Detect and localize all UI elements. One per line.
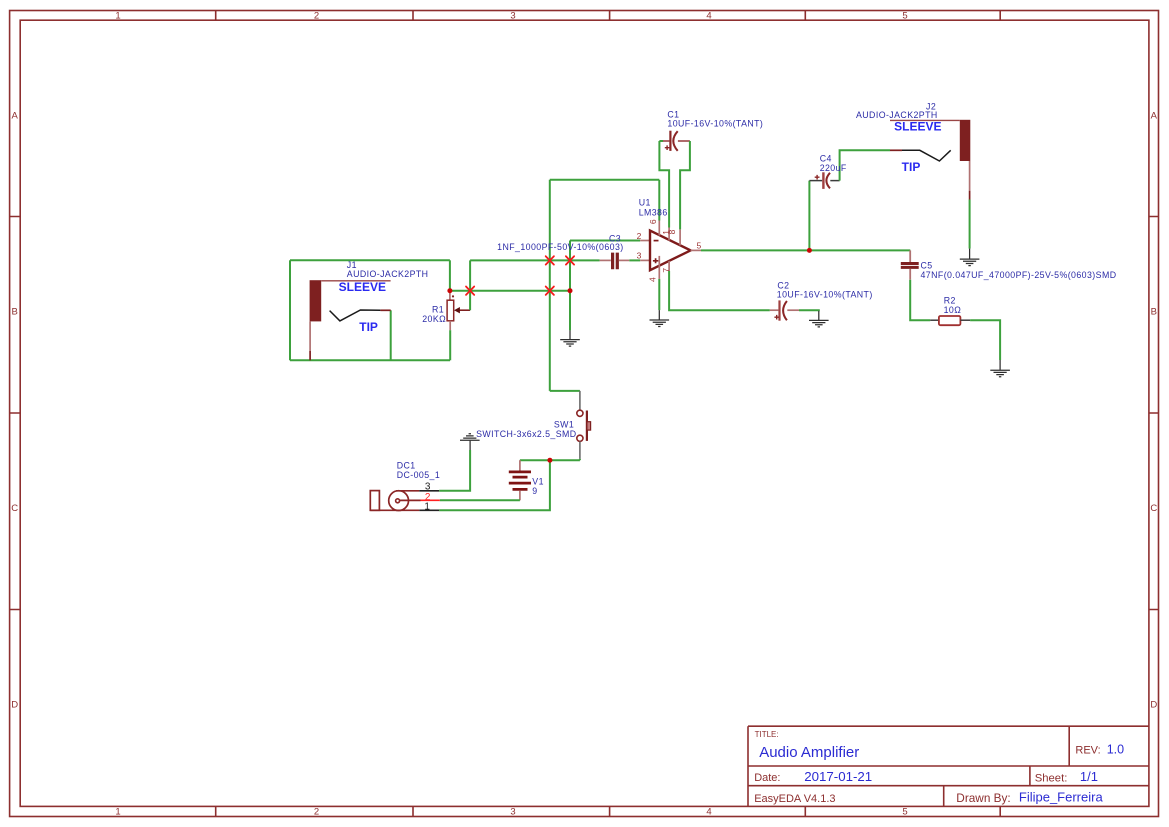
wire C4 branch vertical <box>808 181 810 251</box>
capacitor C2 curved plate <box>783 301 787 320</box>
capacitor C5 top pin <box>909 250 911 262</box>
capacitor C4 plus sign <box>815 175 820 180</box>
svg-text:C: C <box>1150 503 1157 514</box>
no-connect cross at rail crossing C3 wire <box>546 256 554 264</box>
no-connect cross at rail crossing input <box>546 287 554 295</box>
svg-text:SLEEVE: SLEEVE <box>894 120 941 134</box>
audio jack J1 body <box>310 280 322 321</box>
capacitor C3 plates <box>613 253 618 270</box>
wire minus-input to pin2 <box>570 240 640 242</box>
resistor R2 body <box>939 316 961 325</box>
potentiometer R1 body <box>447 300 454 321</box>
svg-text:3: 3 <box>510 807 515 818</box>
audio jack J1 sleeve line <box>321 280 390 282</box>
svg-text:2: 2 <box>314 11 319 22</box>
wire output net <box>701 249 910 251</box>
wire power rail vertical <box>549 180 551 391</box>
svg-text:DC1: DC1 <box>397 460 416 470</box>
junction dot output C4 branch <box>807 248 812 253</box>
svg-text:6: 6 <box>648 219 658 224</box>
junction dot R1 top <box>447 288 452 293</box>
svg-text:TIP: TIP <box>902 160 921 174</box>
svg-text:AUDIO-JACK2PTH: AUDIO-JACK2PTH <box>347 269 429 279</box>
switch SW1 top contact circle <box>577 410 583 416</box>
wire switch to bottom rail <box>579 459 581 460</box>
capacitor C4 straight plate <box>822 172 824 189</box>
svg-text:1NF_1000PF-50V-10%(0603): 1NF_1000PF-50V-10%(0603) <box>497 242 623 252</box>
svg-text:3: 3 <box>510 11 515 22</box>
svg-text:10Ω: 10Ω <box>944 305 962 315</box>
svg-text:D: D <box>1150 700 1157 711</box>
switch SW1 bottom pin <box>579 442 581 459</box>
svg-text:TITLE:: TITLE: <box>755 730 779 739</box>
frame column ticks bottom <box>216 806 1001 816</box>
capacitor C4 curved plate <box>826 173 830 189</box>
wire J1 tip to bottom <box>390 310 392 360</box>
resistor R2 left pin <box>930 319 939 321</box>
svg-text:1/1: 1/1 <box>1080 769 1098 784</box>
wire J1 loop bottom <box>290 359 450 361</box>
ground at J2 sleeve <box>960 249 980 266</box>
no-connect cross at wiper crossing <box>466 287 474 295</box>
dc jack DC1 pin3 <box>419 490 439 492</box>
svg-text:1: 1 <box>115 807 120 818</box>
capacitor C3 right pin <box>619 259 629 261</box>
svg-text:A: A <box>1151 111 1158 122</box>
wire J1 loop top <box>290 259 450 261</box>
audio jack J2 tip pin <box>890 149 902 151</box>
svg-text:SWITCH-3x6x2.5_SMD: SWITCH-3x6x2.5_SMD <box>476 429 576 439</box>
dc jack DC1 center line <box>400 499 421 501</box>
capacitor C1 plus sign <box>665 145 670 150</box>
svg-text:C3: C3 <box>609 233 621 243</box>
svg-text:2017-01-21: 2017-01-21 <box>804 769 872 784</box>
svg-text:5: 5 <box>902 11 907 22</box>
svg-text:C4: C4 <box>820 153 832 163</box>
svg-text:Audio Amplifier: Audio Amplifier <box>759 744 859 761</box>
wire battery top rail <box>520 459 580 461</box>
wire C4 to J2 tip <box>840 150 890 180</box>
op-amp U1 plus sign <box>653 258 658 263</box>
wire DC1 pin1 net <box>439 460 550 510</box>
battery V1 plates <box>509 472 531 490</box>
svg-text:20KΩ: 20KΩ <box>422 314 446 324</box>
audio jack J2 tip contact <box>902 150 951 161</box>
wire pin7 branch <box>669 271 770 310</box>
frame column ticks top <box>216 11 1001 21</box>
capacitor C5 plates <box>901 264 919 268</box>
op-amp U1 pin4 <box>658 256 660 279</box>
wire pin4 to ground <box>658 279 660 310</box>
svg-text:SW1: SW1 <box>554 419 574 429</box>
svg-text:C: C <box>11 503 18 514</box>
svg-text:Date:: Date: <box>754 772 780 784</box>
wire C3 to pin3 <box>629 259 640 261</box>
capacitor C2 plus sign <box>774 315 779 320</box>
svg-text:9: 9 <box>532 486 537 496</box>
svg-text:2: 2 <box>637 231 642 241</box>
svg-text:2: 2 <box>314 807 319 818</box>
svg-text:Filipe_Ferreira: Filipe_Ferreira <box>1019 790 1104 805</box>
audio jack J2 sleeve line <box>890 119 960 121</box>
svg-text:4: 4 <box>706 11 711 22</box>
battery V1 bottom pin <box>519 491 521 501</box>
op-amp U1 pin6 <box>658 180 660 221</box>
ground at C2 <box>809 311 829 327</box>
svg-text:1.0: 1.0 <box>1107 742 1124 756</box>
svg-text:SLEEVE: SLEEVE <box>339 280 386 294</box>
svg-text:1: 1 <box>115 11 120 22</box>
potentiometer R1 top pin <box>449 291 451 301</box>
wire wiper vertical <box>469 260 471 310</box>
dc jack DC1 pin1 <box>419 509 439 511</box>
switch SW1 actuator <box>586 411 588 441</box>
svg-text:Drawn By:: Drawn By: <box>956 791 1010 805</box>
op-amp U1 pin3 <box>640 259 650 261</box>
capacitor C2 right pin <box>787 309 799 311</box>
frame row ticks left <box>10 217 21 610</box>
svg-text:C5: C5 <box>921 260 933 270</box>
capacitor C1 right pin <box>678 140 690 142</box>
wire input node horizontal <box>450 290 570 292</box>
junction dot minus-input node <box>568 288 573 293</box>
capacitor C2 straight plate <box>778 300 780 320</box>
capacitor C1 straight plate <box>669 131 671 151</box>
switch SW1 top pin <box>579 391 581 410</box>
svg-text:REV:: REV: <box>1075 744 1100 756</box>
svg-text:4: 4 <box>706 807 711 818</box>
wire DC1 pin3 to ground <box>439 450 470 491</box>
wire power rail top <box>550 179 660 181</box>
wire C1 left branch <box>659 141 669 228</box>
capacitor C4 left pin <box>809 180 822 182</box>
svg-text:A: A <box>12 111 19 122</box>
wire C1 left stub <box>659 140 663 142</box>
op-amp U1 pin1 <box>668 228 670 241</box>
svg-text:220uF: 220uF <box>820 163 847 173</box>
dc jack DC1 pin2 <box>421 499 440 501</box>
svg-text:Sheet:: Sheet: <box>1035 772 1068 784</box>
op-amp U1 pin5 output <box>691 249 701 251</box>
svg-text:5: 5 <box>902 807 907 818</box>
wire C1 right branch <box>680 141 690 229</box>
svg-text:V1: V1 <box>532 477 544 487</box>
audio jack J1 tip contact <box>330 310 381 321</box>
op-amp U1 minus sign <box>654 240 659 242</box>
svg-text:U1: U1 <box>639 198 651 208</box>
capacitor C1 curved plate <box>673 131 677 151</box>
wire minus-input vertical <box>569 241 571 331</box>
capacitor C3 left pin <box>600 259 611 261</box>
svg-text:B: B <box>1151 307 1157 318</box>
svg-text:R2: R2 <box>944 296 956 306</box>
svg-text:8: 8 <box>667 229 677 234</box>
wire power rail to switch <box>550 390 580 392</box>
inverted ground at DC1 pin3 <box>460 434 480 450</box>
dc jack DC1 center pin circle <box>396 499 400 503</box>
frame row ticks right <box>1149 217 1159 610</box>
ground at R2 <box>990 360 1010 377</box>
audio jack J2 body <box>960 120 971 161</box>
wire C3 input horizontal <box>470 259 599 261</box>
battery V1 top pin <box>519 460 521 471</box>
svg-text:1: 1 <box>424 502 430 513</box>
wire R2 to ground <box>970 320 1000 360</box>
wire C2 to ground <box>799 310 819 311</box>
audio jack J2 sleeve pin <box>969 161 971 191</box>
audio jack J1 sleeve pin <box>309 321 311 351</box>
dc jack DC1 outer rect <box>370 491 379 511</box>
potentiometer R1 pin1 dot <box>452 295 454 297</box>
dc jack DC1 bottom line <box>370 509 419 511</box>
wire R1 top <box>449 260 451 290</box>
dc jack DC1 circle <box>389 491 409 511</box>
no-connect cross at minus vertical crossing C3 wire <box>566 256 574 264</box>
svg-text:10UF-16V-10%(TANT): 10UF-16V-10%(TANT) <box>777 289 873 299</box>
op-amp U1 pin7 <box>668 261 670 271</box>
resistor R2 right pin <box>960 319 970 321</box>
op-amp U1 pin8 <box>679 229 681 245</box>
svg-text:LM386: LM386 <box>639 207 668 217</box>
audio jack J1 tip pin <box>380 309 390 311</box>
capacitor C1 left pin <box>663 140 669 142</box>
potentiometer R1 bottom pin <box>449 321 451 330</box>
wire C5 to R2 <box>910 280 930 321</box>
op-amp U1 triangle <box>650 231 691 271</box>
svg-text:4: 4 <box>647 277 657 282</box>
dc jack DC1 top line <box>396 490 419 492</box>
svg-text:5: 5 <box>697 240 702 250</box>
svg-text:3: 3 <box>637 251 642 261</box>
wire J2 sleeve to ground <box>969 200 971 249</box>
svg-text:EasyEDA V4.1.3: EasyEDA V4.1.3 <box>754 793 835 805</box>
ground below minus-input <box>560 330 580 346</box>
svg-text:47NF(0.047UF_47000PF)-25V-5%(0: 47NF(0.047UF_47000PF)-25V-5%(0603)SMD <box>921 270 1117 280</box>
potentiometer R1 wiper arrow <box>458 309 470 311</box>
capacitor C2 left pin <box>770 309 779 311</box>
junction dot battery rail <box>547 458 552 463</box>
ground at pin4 <box>650 310 670 326</box>
op-amp U1 pin2 <box>640 240 650 242</box>
svg-text:D: D <box>11 700 18 711</box>
title block frame <box>748 726 1149 806</box>
wire R1 bottom <box>449 330 451 360</box>
switch SW1 bottom contact circle <box>577 435 583 441</box>
capacitor C4 right pin <box>830 180 839 182</box>
svg-text:DC-005_1: DC-005_1 <box>397 470 440 480</box>
svg-text:TIP: TIP <box>359 320 378 334</box>
svg-text:B: B <box>12 307 18 318</box>
capacitor C5 bottom pin <box>909 269 911 280</box>
svg-text:AUDIO-JACK2PTH: AUDIO-JACK2PTH <box>856 110 938 120</box>
wire J1 loop left <box>289 260 291 360</box>
wire battery to DC1 pin2 <box>440 499 520 501</box>
svg-text:R1: R1 <box>432 305 444 315</box>
svg-text:10UF-16V-10%(TANT): 10UF-16V-10%(TANT) <box>667 118 763 128</box>
